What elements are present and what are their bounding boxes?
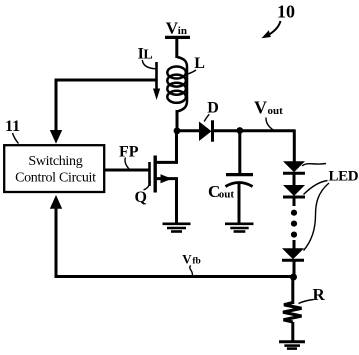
svg-text:Control Circuit: Control Circuit bbox=[15, 171, 96, 186]
svg-text:out: out bbox=[268, 105, 284, 117]
svg-text:fb: fb bbox=[192, 257, 200, 267]
svg-text:L: L bbox=[194, 55, 205, 72]
svg-text:L: L bbox=[143, 48, 152, 63]
svg-text:11: 11 bbox=[5, 118, 20, 135]
svg-text:R: R bbox=[313, 285, 326, 304]
svg-text:10: 10 bbox=[277, 2, 295, 22]
svg-text:Q: Q bbox=[135, 189, 147, 206]
svg-text:FP: FP bbox=[119, 144, 139, 161]
svg-text:in: in bbox=[178, 25, 187, 37]
svg-text:D: D bbox=[207, 100, 219, 117]
svg-text:LED: LED bbox=[329, 168, 359, 184]
svg-text:Switching: Switching bbox=[28, 154, 82, 169]
svg-text:out: out bbox=[219, 188, 235, 200]
svg-text:V: V bbox=[182, 252, 192, 267]
svg-text:V: V bbox=[254, 98, 267, 118]
